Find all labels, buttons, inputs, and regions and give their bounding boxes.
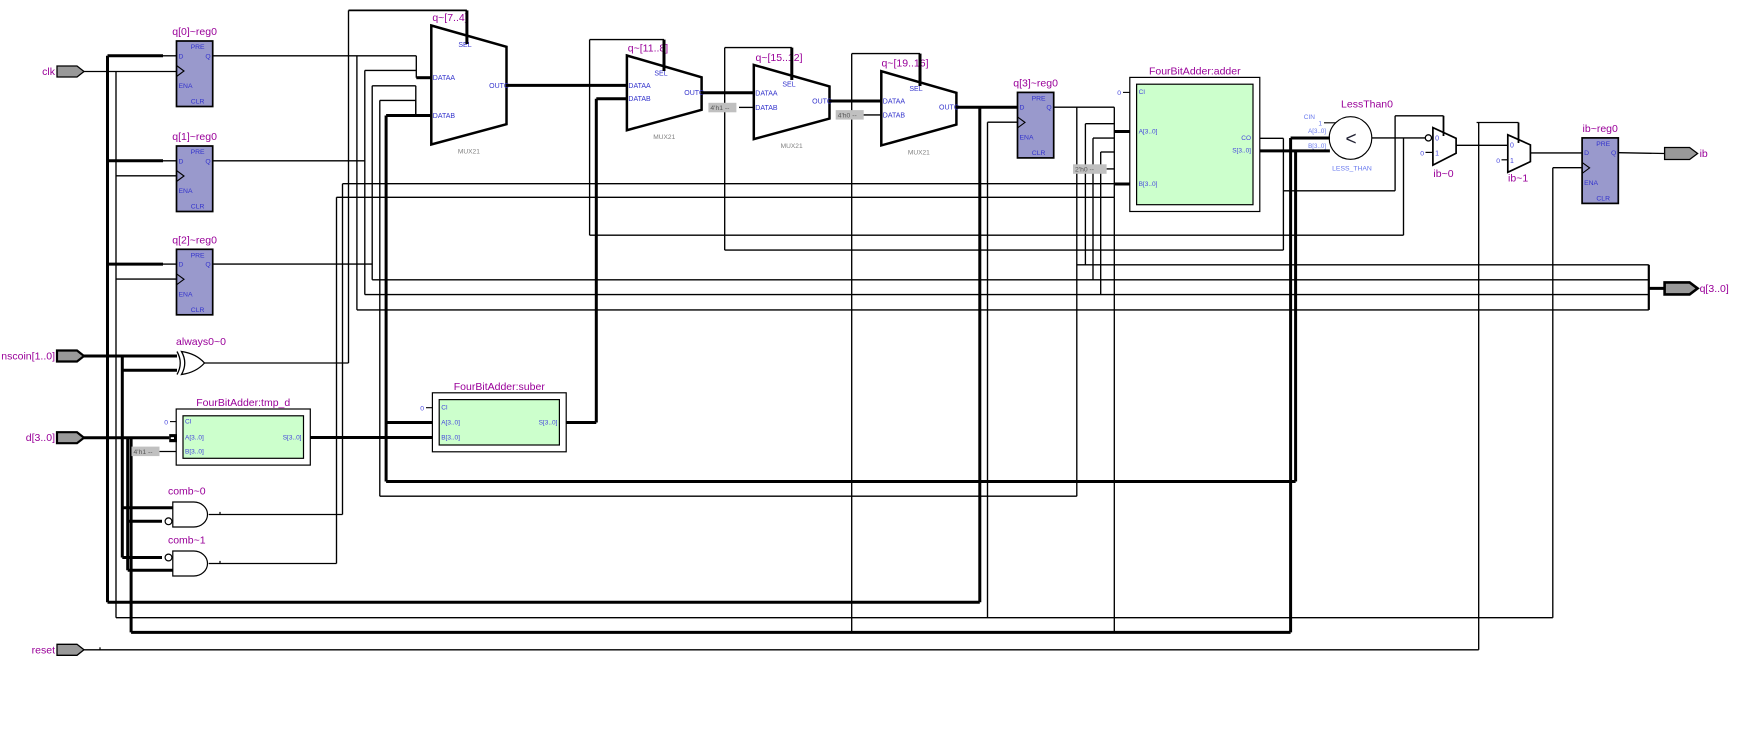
- svg-text:always0~0: always0~0: [176, 336, 226, 348]
- wire lessthan return line: [590, 234, 1404, 236]
- svg-text:0: 0: [1117, 90, 1121, 97]
- svg-text:q[0]~reg0: q[0]~reg0: [172, 26, 217, 38]
- junction tick comb~0 out: [219, 512, 221, 515]
- svg-text:q[2]~reg0: q[2]~reg0: [172, 234, 217, 246]
- svg-text:S[3..0]: S[3..0]: [539, 419, 558, 426]
- wire suber S riser: [595, 99, 598, 423]
- wire q-bus stub to pin: [1649, 287, 1665, 290]
- wire ib~0 sel line: [1283, 190, 1395, 192]
- wire ib~0 out to ib~1: [1456, 144, 1508, 146]
- svg-text:DATAA: DATAA: [883, 99, 906, 106]
- svg-text:q~[7..4]: q~[7..4]: [432, 12, 467, 24]
- svg-text:SEL: SEL: [654, 71, 667, 78]
- svg-text:D: D: [1584, 150, 1589, 157]
- inverter bubble ib~0 input 0: [1425, 135, 1431, 141]
- svg-text:q~[15..12]: q~[15..12]: [756, 52, 803, 64]
- svg-text:Q: Q: [205, 53, 210, 60]
- wire MUX3 sel loop: [725, 47, 792, 49]
- svg-text:DATAA: DATAA: [433, 75, 456, 82]
- wire lessthan out: [1372, 137, 1426, 139]
- mux q~[11..8] MUX21: [627, 56, 702, 131]
- svg-text:DATAA: DATAA: [628, 83, 651, 90]
- svg-text:LessThan0: LessThan0: [1341, 99, 1393, 111]
- wire D-feed riser from mux4 out: [978, 107, 981, 602]
- svg-text:D: D: [179, 53, 184, 60]
- wire D-feed tap q2 thick: [108, 263, 164, 266]
- svg-text:DATAB: DATAB: [433, 113, 456, 120]
- svg-text:MUX21: MUX21: [908, 149, 930, 156]
- wire CO out: [1260, 137, 1284, 139]
- svg-text:SEL: SEL: [458, 42, 471, 49]
- svg-text:Q: Q: [1046, 105, 1051, 112]
- wire clk stub ib~reg0: [1553, 167, 1582, 169]
- wire CO return riser: [724, 48, 726, 251]
- XOR gate always0~0: [177, 352, 205, 375]
- wire suber S out: [566, 421, 596, 424]
- svg-text:d[3..0]: d[3..0]: [26, 432, 55, 444]
- wire q-bus line q0: [357, 309, 1649, 311]
- svg-text:PRE: PRE: [191, 252, 205, 259]
- svg-text:MUX21: MUX21: [653, 134, 675, 141]
- wire lessthan return riser: [589, 40, 591, 236]
- wire d drop for combs: [126, 438, 129, 571]
- svg-text:DATAB: DATAB: [883, 112, 906, 119]
- wire D-feed tap q2 thin: [163, 263, 177, 265]
- wire MUX2 out to MUX3 DATAA: [702, 91, 754, 94]
- wire q2.Q output: [213, 263, 373, 265]
- wire CO return line: [725, 249, 1284, 251]
- wire adder S out to lessthan B: [1260, 149, 1330, 152]
- wire adder A bit1 tap: [1085, 123, 1114, 125]
- wire lessthan out drop: [1403, 138, 1405, 235]
- svg-text:PRE: PRE: [191, 44, 205, 51]
- svg-text:0: 0: [420, 406, 424, 413]
- svg-text:0: 0: [1510, 143, 1514, 150]
- wire MUX2 DATAB stub: [596, 97, 627, 100]
- wire MUX1 DATAA stub: [416, 76, 431, 79]
- wire d riser to lessthan A: [1289, 138, 1292, 632]
- svg-text:MUX21: MUX21: [781, 143, 803, 150]
- svg-text:4'h1 --: 4'h1 --: [710, 105, 729, 112]
- wire d bottom run: [131, 631, 1291, 634]
- wire always0 riser: [348, 10, 350, 363]
- wire q-bus line q3: [1077, 264, 1649, 266]
- svg-text:B[3..0]: B[3..0]: [441, 434, 460, 441]
- svg-text:0: 0: [1420, 150, 1424, 157]
- svg-text:q~[19..16]: q~[19..16]: [882, 58, 929, 70]
- svg-text:OUTC: OUTC: [684, 90, 704, 97]
- svg-text:DATAB: DATAB: [628, 96, 651, 103]
- wire q3 return line: [380, 495, 1077, 497]
- svg-text:LESS_THAN: LESS_THAN: [1332, 166, 1372, 173]
- wire q1.Q output: [213, 160, 365, 162]
- svg-text:A[3..0]: A[3..0]: [441, 419, 460, 426]
- svg-text:reset: reset: [32, 644, 55, 656]
- wire ib~0 sel entry: [1443, 116, 1445, 136]
- svg-text:ib~1: ib~1: [1508, 173, 1528, 185]
- AND gate comb~1: [173, 551, 208, 576]
- wire ib~1 sel entry: [1518, 123, 1520, 144]
- junction tick comb~1 out: [219, 561, 221, 564]
- svg-text:OUTC: OUTC: [939, 105, 959, 112]
- wire adder A bar: [1113, 107, 1115, 197]
- wire MUX1 sel entry: [465, 10, 468, 44]
- wire clk riser to ib~reg0: [1552, 168, 1554, 618]
- wire MUX4 sel loop: [852, 53, 920, 55]
- svg-text:CLR: CLR: [1032, 150, 1046, 157]
- svg-text:B[3..0]: B[3..0]: [1308, 143, 1326, 150]
- wire comb0 input a: [122, 506, 173, 509]
- svg-text:0: 0: [1435, 136, 1439, 143]
- svg-text:q[3..0]: q[3..0]: [1700, 283, 1729, 295]
- svg-text:Q: Q: [205, 262, 210, 269]
- wire MUX2 sel entry: [663, 40, 666, 71]
- mux q~[7..4] MUX21: [431, 26, 506, 145]
- block FourBitAdder:tmp_d: [176, 409, 310, 465]
- wire q2 vertical: [371, 86, 373, 280]
- wire D-feed tap q1 thick: [108, 159, 164, 162]
- svg-text:D: D: [179, 158, 184, 165]
- svg-text:1: 1: [1318, 120, 1322, 127]
- wire clk stub q3: [988, 121, 1018, 123]
- wire reset riser to ib~1 sel: [1478, 123, 1480, 650]
- wire MUX1 DATAB stub: [386, 114, 431, 117]
- input pin nscoin[1..0]: [57, 351, 84, 362]
- wire MUX3 out to MUX4 DATAA: [830, 100, 882, 103]
- svg-text:ENA: ENA: [1584, 180, 1598, 187]
- wire D-feed tap q0 thick: [108, 54, 164, 57]
- svg-text:CIN: CIN: [1304, 114, 1316, 121]
- wire reset run: [84, 649, 1479, 651]
- wire D-feed vertical x=107.5: [106, 56, 109, 603]
- svg-text:1: 1: [1435, 150, 1439, 157]
- wire q1 vertical: [364, 70, 366, 294]
- svg-text:B[3..0]: B[3..0]: [185, 448, 204, 455]
- wire q0 drop to q-bus: [356, 56, 358, 310]
- svg-text:q~[11..8]: q~[11..8]: [628, 43, 668, 55]
- svg-text:<: <: [1345, 129, 1356, 150]
- wire q0.Q to MUX1 DATAA riser: [213, 55, 417, 57]
- wire nscoin pin to xor: [84, 355, 177, 358]
- svg-text:nscoin[1..0]: nscoin[1..0]: [1, 351, 55, 363]
- svg-text:PRE: PRE: [1032, 95, 1046, 102]
- wire MUX1 sel loop top: [349, 9, 467, 11]
- wire clk riser to q3: [987, 122, 989, 618]
- wire MUX1 out to MUX2 DATAA: [507, 84, 627, 87]
- comparator LessThan0: [1329, 117, 1372, 160]
- wire q2 bit down into DATAB: [415, 86, 417, 116]
- wire comb1 input b: [128, 569, 173, 572]
- wire S-return riser to MUX1: [385, 116, 388, 482]
- block FourBitAdder:adder: [1130, 77, 1260, 211]
- svg-text:CLR: CLR: [191, 204, 205, 211]
- constant 4'h1 (tmp_d B): [132, 447, 160, 457]
- svg-text:Q: Q: [205, 158, 210, 165]
- wire clk pin to q0 clk: [84, 71, 177, 73]
- svg-text:CI: CI: [185, 418, 192, 425]
- wire q3 return riser: [379, 100, 381, 496]
- mux q~[15..12] MUX21: [754, 65, 830, 139]
- input pin clk: [57, 66, 84, 77]
- wire CO drop: [1282, 138, 1284, 250]
- svg-text:clk: clk: [42, 66, 56, 78]
- AND gate comb~0: [173, 502, 208, 527]
- wire comb0 output: [209, 514, 343, 516]
- svg-text:ib: ib: [1700, 148, 1708, 160]
- svg-text:CI: CI: [1139, 89, 1146, 96]
- DFF q[1]~reg0: [172, 131, 217, 212]
- wire q-bus line q2: [372, 279, 1649, 281]
- wire ib~0 sel loop: [1395, 115, 1443, 117]
- wire adder B bar riser: [1113, 197, 1115, 632]
- input pin d[3..0]: [57, 432, 84, 443]
- wire MUX4 sel riser: [851, 54, 853, 633]
- wire comb0 input b bubble: [128, 520, 162, 523]
- DFF q[2]~reg0: [172, 234, 217, 314]
- wire clk tap q2: [116, 278, 177, 280]
- wire MUX4 sel entry: [919, 54, 922, 86]
- svg-text:DATAB: DATAB: [755, 105, 778, 112]
- svg-text:FourBitAdder:suber: FourBitAdder:suber: [454, 381, 546, 393]
- port square tmp_d A: [169, 434, 177, 442]
- constant 2'h0 (adder B): [1073, 164, 1107, 174]
- svg-text:A[3..0]: A[3..0]: [185, 435, 204, 442]
- svg-text:MUX21: MUX21: [458, 149, 480, 156]
- wire nscoin drop: [121, 356, 124, 558]
- mux ib~1: [1508, 135, 1531, 173]
- constant 4'h1 (mux3 DATAB): [708, 103, 736, 113]
- svg-text:A[3..0]: A[3..0]: [1308, 128, 1326, 135]
- svg-text:B[3..0]: B[3..0]: [1139, 181, 1158, 188]
- constant 4'h0 (mux4 DATAB): [836, 110, 864, 120]
- wire comb0 riser: [342, 184, 344, 515]
- wire comb1 input a bubble: [122, 556, 162, 559]
- svg-text:PRE: PRE: [1596, 141, 1610, 148]
- wire q3 bit to DATAB: [380, 99, 416, 101]
- svg-text:CLR: CLR: [191, 99, 205, 106]
- wire MUX3 sel entry: [790, 48, 793, 80]
- svg-text:FourBitAdder:tmp_d: FourBitAdder:tmp_d: [196, 397, 290, 409]
- svg-text:D: D: [1020, 105, 1025, 112]
- svg-text:D: D: [179, 262, 184, 269]
- svg-text:SEL: SEL: [782, 82, 795, 89]
- output pin ib: [1665, 148, 1698, 160]
- DFF q[0]~reg0: [172, 26, 217, 107]
- svg-text:PRE: PRE: [191, 149, 205, 156]
- wire D-feed tap q0 thin: [163, 55, 177, 57]
- wire q3 vertical: [1076, 107, 1078, 496]
- svg-text:ENA: ENA: [179, 188, 193, 195]
- wire adder A stub: [1114, 130, 1130, 133]
- svg-text:OUTC: OUTC: [812, 99, 832, 106]
- wire comb1 output: [209, 563, 337, 565]
- svg-text:Q: Q: [1611, 150, 1616, 157]
- wire S-return riser right: [1294, 151, 1297, 482]
- wire ib~0 sel riser: [1394, 116, 1396, 191]
- svg-text:0: 0: [164, 419, 168, 426]
- wire adder B stub: [1114, 183, 1130, 186]
- svg-text:ib~0: ib~0: [1433, 168, 1453, 180]
- wire xor input b: [122, 369, 177, 372]
- wire D-feed tap q1 thin: [163, 160, 177, 162]
- wire D-feed bottom run: [108, 601, 980, 604]
- wire MUX4 DATAB const: [862, 114, 881, 116]
- svg-text:A[3..0]: A[3..0]: [1139, 128, 1158, 135]
- wire comb1 riser: [336, 197, 338, 563]
- wire d drop to bottom: [130, 438, 133, 633]
- wire adder A bit1 riser: [1084, 124, 1086, 265]
- wire adder A bit3 tap: [1101, 151, 1115, 153]
- svg-text:CLR: CLR: [191, 307, 205, 314]
- wire MUX4 out to q3 D: [956, 106, 1017, 109]
- wire q2 bit over mux1: [372, 85, 416, 87]
- wire adder A bit2 riser: [1092, 138, 1094, 280]
- wire adder B const tap: [1107, 168, 1115, 170]
- svg-text:CO: CO: [1241, 135, 1251, 142]
- wire S-return tap suber A: [386, 421, 432, 424]
- mux ib~0: [1433, 128, 1456, 166]
- wire d pin to tmp_d A: [84, 436, 169, 439]
- wire MUX3 DATAB const: [739, 106, 754, 108]
- wire q3.Q output: [1054, 106, 1115, 108]
- svg-text:1: 1: [1510, 158, 1514, 165]
- wire clk bottom run: [116, 617, 1553, 619]
- svg-text:ENA: ENA: [179, 83, 193, 90]
- svg-text:q[1]~reg0: q[1]~reg0: [172, 131, 217, 143]
- mux q~[19..16] MUX21: [881, 71, 956, 145]
- svg-text:comb~1: comb~1: [168, 535, 206, 547]
- wire always0 output: [205, 362, 349, 364]
- wire q1 bit to DATAA: [365, 69, 417, 71]
- wire tmp_d B const: [160, 451, 177, 453]
- svg-text:CLR: CLR: [1596, 195, 1610, 202]
- wire adder A bit3 riser: [1100, 152, 1102, 295]
- svg-text:DATAA: DATAA: [755, 91, 778, 98]
- wire tmp_d S to suber B: [310, 436, 432, 439]
- svg-text:q[3]~reg0: q[3]~reg0: [1013, 77, 1058, 89]
- wire comb1 line to adder B bar: [337, 196, 1115, 198]
- DFF ib~reg0: [1582, 123, 1618, 204]
- svg-text:OUTC: OUTC: [489, 83, 509, 90]
- svg-text:S[3..0]: S[3..0]: [283, 435, 302, 442]
- wire clk tap q1: [116, 175, 177, 177]
- output pin q[3..0]: [1665, 282, 1698, 294]
- svg-text:S[3..0]: S[3..0]: [1232, 148, 1251, 155]
- junction tick reset: [99, 647, 101, 650]
- wire adder A bit2 tap: [1093, 137, 1114, 139]
- wire ib~1 out to ib~reg0: [1530, 152, 1582, 154]
- wire lessthan A stub: [1291, 137, 1330, 140]
- svg-text:ENA: ENA: [1020, 134, 1034, 141]
- DFF q[3]~reg0: [1013, 77, 1058, 157]
- svg-text:4'h0 --: 4'h0 --: [838, 112, 857, 119]
- wire clk vertical bus x=116: [115, 72, 117, 618]
- wire q-bus collection bar: [1648, 265, 1650, 310]
- wire comb0 line to adder B: [343, 183, 1115, 185]
- wire MUX1 DATAA riser: [415, 56, 417, 78]
- svg-text:ib~reg0: ib~reg0: [1583, 123, 1618, 135]
- svg-text:CI: CI: [441, 405, 448, 412]
- block FourBitAdder:suber: [432, 393, 566, 452]
- svg-text:comb~0: comb~0: [168, 486, 206, 498]
- input pin reset: [57, 644, 84, 655]
- wire S-return bottom: [386, 480, 1296, 483]
- svg-text:FourBitAdder:adder: FourBitAdder:adder: [1149, 65, 1241, 77]
- svg-text:ENA: ENA: [179, 291, 193, 298]
- wire MUX2 sel loop: [590, 39, 664, 41]
- wire q3 bit riser DATAB: [415, 100, 417, 115]
- svg-text:2'h0 --: 2'h0 --: [1075, 167, 1094, 174]
- wire q-bus line q1: [365, 294, 1649, 296]
- svg-text:SEL: SEL: [909, 86, 922, 93]
- svg-text:4'h1 --: 4'h1 --: [134, 449, 153, 456]
- wire ib~1 sel loop: [1477, 122, 1519, 124]
- svg-text:0: 0: [1496, 158, 1500, 165]
- wire ib~reg0 Q to pin: [1619, 152, 1665, 155]
